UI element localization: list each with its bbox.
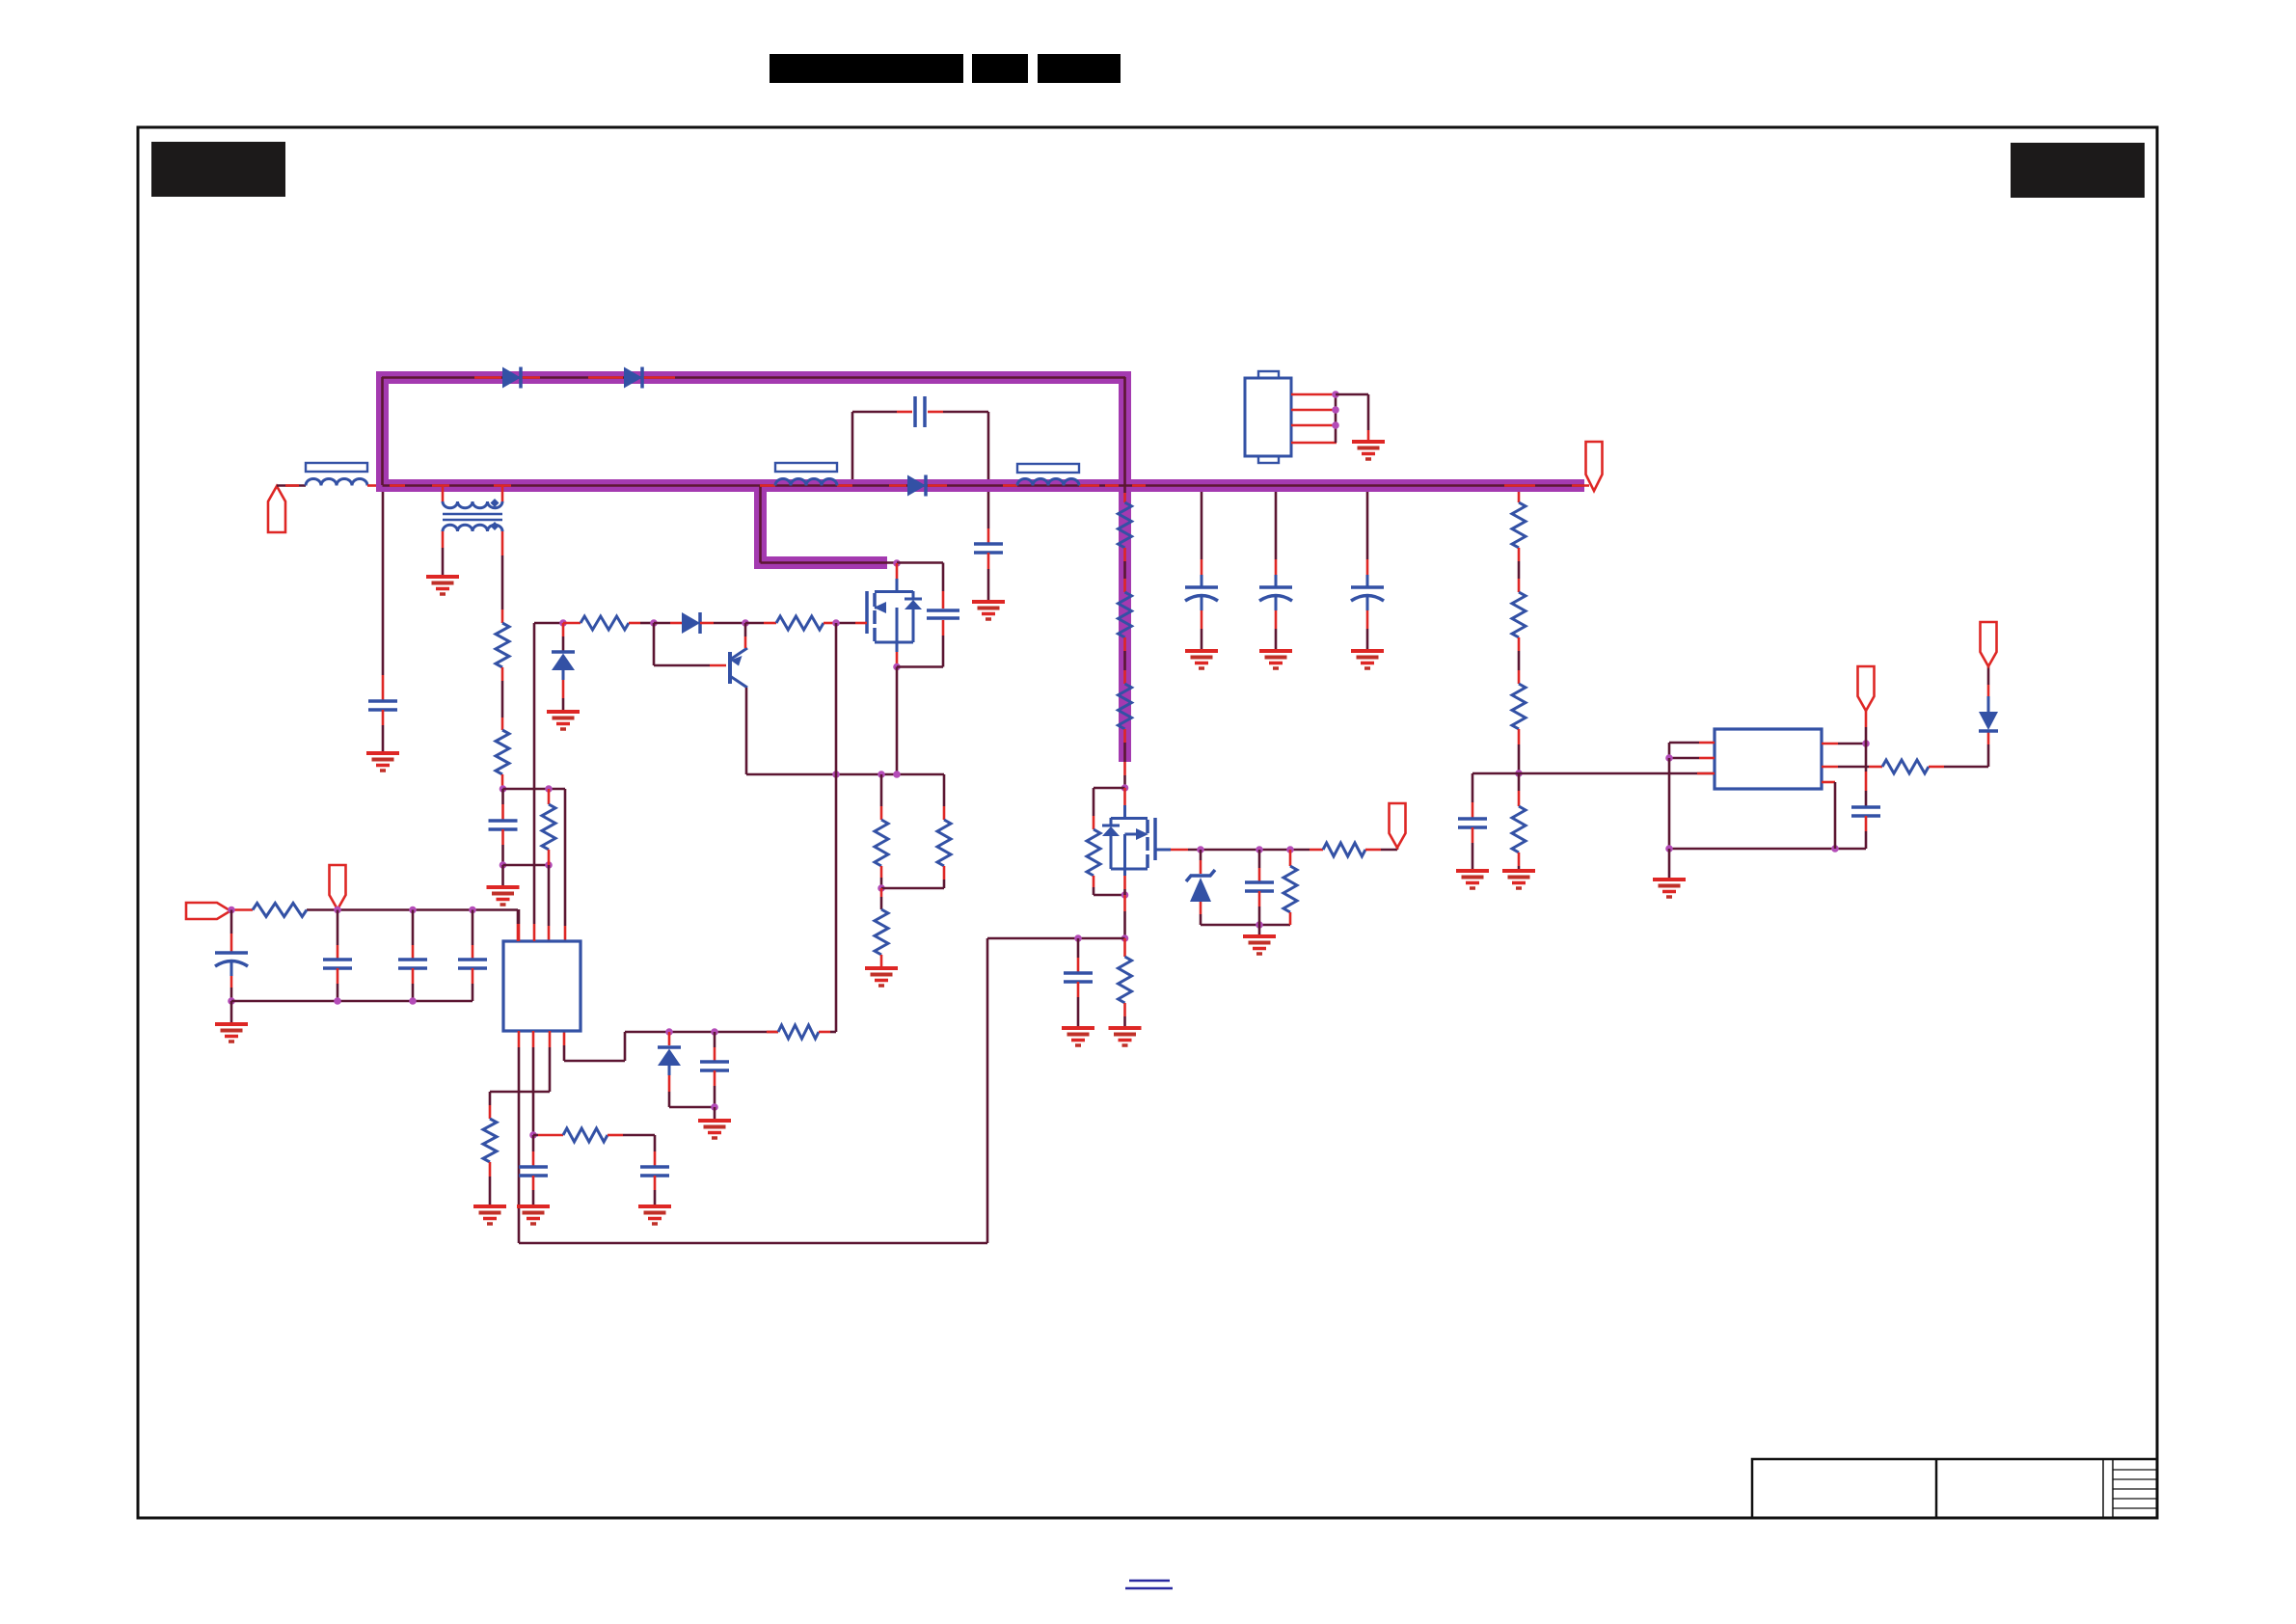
resistor RQ2 — [1087, 829, 1100, 876]
node divider junction — [500, 785, 565, 793]
C5 ground junction — [711, 1103, 718, 1121]
wire C11 bottom — [1865, 816, 1868, 849]
IC pin6 bottom — [518, 1031, 521, 1243]
wire T1 secondary left to ground — [442, 531, 445, 577]
Vcc junction 2 — [409, 907, 417, 914]
wire gate-drive riser — [759, 485, 762, 563]
wire RB bottom — [881, 866, 944, 888]
wire node to IC pin4 — [564, 789, 567, 941]
zener Z3 — [1186, 870, 1215, 902]
wire C6 top — [532, 1135, 535, 1166]
wire R1 to R2 — [501, 667, 504, 730]
wire Z1 top — [562, 623, 565, 652]
mosfet Q2 — [1102, 818, 1155, 876]
wire R3 to node — [629, 622, 654, 625]
wire Q3 collector down — [745, 688, 748, 774]
capacitor C4 — [927, 610, 959, 618]
resistor RD2 — [1512, 592, 1526, 637]
wire R6 lead — [533, 1134, 563, 1137]
resistor R8 — [253, 904, 307, 917]
wire RA bottom — [880, 866, 883, 888]
gate-drive junction — [893, 559, 901, 567]
source rail junction C — [893, 771, 901, 778]
wire R2t bottom — [548, 850, 551, 865]
IC pin2 top — [533, 623, 536, 941]
highlight bus left riser — [376, 371, 389, 492]
pin7 junction — [529, 1131, 537, 1139]
wire RA top — [880, 774, 883, 820]
wire Z3 bottom — [1201, 902, 1290, 925]
controller IC U1 — [503, 941, 581, 1031]
J2 pin 1 — [1291, 393, 1336, 396]
resistor RD4 — [1512, 806, 1526, 853]
wire output stub — [1572, 484, 1589, 487]
diode D2 — [624, 367, 642, 389]
ground G16 — [473, 1206, 506, 1224]
wire rail to R4 — [745, 622, 776, 625]
resistor RC — [875, 909, 888, 955]
gate rail junction 1 — [1197, 846, 1204, 853]
Q1 gate junction — [832, 619, 840, 627]
wire C15 top — [230, 910, 233, 954]
wire RD1-RD2 — [1518, 548, 1521, 592]
resistor RGS — [1323, 843, 1365, 856]
capacitor C15 — [215, 953, 248, 976]
feedback resistor RF1 — [1119, 502, 1132, 548]
wire C14 bottom — [412, 968, 415, 1001]
regulator U2 — [1715, 729, 1822, 789]
Vcc junction 3 — [469, 907, 476, 914]
capacitor C2 snubber — [915, 396, 925, 427]
wire C12 drop — [472, 910, 474, 960]
gate rail junction 2 — [1256, 846, 1263, 853]
output tag T4 — [1586, 442, 1603, 491]
wire gate rail left — [534, 622, 563, 625]
ground GRD — [1502, 871, 1535, 888]
capacitor C13 — [323, 960, 352, 968]
wire C5 bottom — [714, 1070, 716, 1107]
wire gnd column stub — [1668, 849, 1671, 880]
wire x867 column — [835, 623, 838, 1032]
wire C11 top — [1865, 744, 1868, 806]
capacitor C2t — [489, 821, 518, 829]
wire T2 stub — [337, 907, 339, 910]
wire Z3 top — [1200, 850, 1202, 874]
wire Q1 drain stub — [896, 563, 899, 579]
J2 pin bus — [1332, 391, 1339, 443]
highlight bus top band — [376, 371, 1131, 384]
wire left riser — [381, 377, 384, 485]
wire C10 top — [1077, 938, 1080, 972]
inductor L2 — [775, 463, 837, 486]
wire Q2 source — [1123, 876, 1126, 938]
wire Z2 bottom — [669, 1075, 715, 1107]
resistor R2t — [542, 804, 555, 850]
title redaction box top-right — [2011, 143, 2145, 198]
wire main bus — [383, 484, 1585, 487]
wire Vcc rail — [230, 910, 518, 942]
resistor R5 — [778, 1025, 819, 1039]
ground GC8 — [1456, 871, 1489, 888]
IC pin1 top — [518, 909, 521, 941]
diode D5 — [1979, 712, 1998, 731]
capacitor C10 — [1064, 973, 1093, 982]
wire RF2-RF3 — [1123, 637, 1126, 684]
resistor RD3 — [1512, 684, 1526, 729]
RA bottom junction — [878, 884, 885, 892]
resistor RS — [1119, 957, 1132, 1003]
wire gnd column — [1668, 758, 1671, 849]
ground G15 — [487, 887, 520, 905]
node2 junction — [500, 861, 553, 869]
resistor RO — [1882, 760, 1929, 773]
wire snubber right — [928, 412, 988, 479]
wire RO to D5 — [1929, 731, 1988, 767]
wire G9 stub — [1258, 925, 1261, 936]
wire C5 top — [714, 1032, 716, 1061]
wire Q3 emitter up — [744, 623, 747, 648]
resistor R1 — [496, 623, 509, 667]
wire source rail — [746, 773, 944, 776]
page header redaction bar 1 — [770, 54, 963, 83]
wire C8 ground — [1472, 827, 1474, 871]
wire gate node to C4 — [897, 563, 943, 609]
Vcc junction T2 — [334, 907, 341, 914]
wire R6 to C7 — [608, 1135, 655, 1166]
capacitor C1 — [368, 701, 397, 710]
wire C13 bottom — [337, 968, 339, 1001]
wire node2 ground — [501, 865, 504, 887]
wire rail to R5 — [767, 1031, 778, 1034]
wire gate-drive band — [761, 561, 898, 564]
Q2 source junction — [1121, 891, 1129, 899]
ground G4 — [547, 712, 580, 729]
diode D1 — [502, 367, 521, 389]
wire C9 top — [1258, 850, 1261, 881]
capacitor C5 — [700, 1062, 729, 1070]
wire RD4 top — [1518, 773, 1521, 806]
capacitor C14 — [398, 960, 427, 968]
wire RG bottom — [1289, 912, 1292, 925]
wire D5 to T5 — [1987, 666, 1990, 712]
wire R5 to column — [819, 1031, 836, 1034]
inductor L3 — [1017, 464, 1079, 486]
resistor R7 — [483, 1119, 497, 1162]
Q2 source node junction — [987, 934, 1128, 942]
Vcc junction 1 — [228, 907, 235, 914]
page header redaction bar 3 — [1038, 54, 1121, 83]
wire C14 drop — [412, 910, 415, 960]
wire Z1 ground — [562, 680, 565, 712]
wire Q1 gate — [836, 622, 867, 625]
page header redaction bar 2 — [972, 54, 1028, 83]
wire RS top — [1123, 938, 1126, 957]
wire C6 ground — [532, 1176, 535, 1206]
wire C15 bottom — [230, 976, 233, 1001]
wire RC top — [880, 888, 883, 909]
wire input node drop — [382, 492, 385, 701]
transformer T1 — [443, 486, 502, 531]
tag T6 — [1858, 666, 1875, 711]
resistor R2 — [496, 730, 509, 774]
diode D4 — [682, 612, 700, 634]
wire C7 ground — [654, 1176, 657, 1206]
wire Q2 R loop bottom — [1094, 876, 1125, 895]
wire C9 bottom — [1258, 891, 1261, 925]
wire Z2 top — [668, 1032, 671, 1045]
ground GB1 — [1185, 651, 1218, 668]
wire C4 bottom — [942, 620, 945, 667]
wire R7 ground — [489, 1162, 492, 1206]
feedback resistor RF2 — [1119, 592, 1132, 637]
Q2 drain junction — [1121, 784, 1129, 792]
wire RF1-RF2 — [1123, 548, 1126, 592]
ground G17 — [215, 1024, 248, 1042]
resistor R3 — [581, 616, 629, 630]
bulk capacitor CB3 — [1351, 587, 1384, 610]
wire J2 to ground — [1336, 394, 1368, 442]
tag T2 — [330, 865, 346, 909]
Q1 source junction — [893, 663, 943, 671]
wire bulk cap 2 gnd — [1275, 610, 1278, 651]
ground G3 — [972, 602, 1005, 619]
ground G7 — [517, 1206, 550, 1224]
resistor RG — [1283, 866, 1297, 912]
inductor L1 — [306, 463, 367, 486]
bulk capacitor CB2 — [1259, 587, 1292, 610]
ground G8 — [638, 1206, 671, 1224]
J2 pin 4 — [1291, 442, 1337, 445]
wire snubber to C3 — [987, 492, 990, 543]
wire RD2-RD3 — [1518, 637, 1521, 684]
schematic border frame — [138, 127, 2157, 1518]
feedback resistor RF3 — [1119, 684, 1132, 729]
footer link line 1 — [1129, 1580, 1170, 1582]
mosfet Q1 — [867, 579, 922, 652]
wire C13 drop — [337, 910, 339, 960]
highlight bus gate-drive riser — [754, 485, 767, 569]
C15 ground junction — [228, 997, 235, 1024]
wire riser to Q2 — [1123, 762, 1126, 788]
wire node to C-T — [501, 789, 504, 820]
wire rail to R3 — [563, 622, 581, 625]
tag T5 — [1981, 622, 1997, 666]
wire snubber left — [852, 412, 912, 479]
wire R4 to gate node — [824, 622, 836, 625]
wire pin3 from node2 — [548, 865, 551, 941]
resistor R6 — [563, 1128, 608, 1142]
Q3 emitter node — [742, 619, 749, 627]
title redaction box top-left — [151, 142, 285, 197]
wire Q2 drain — [1123, 788, 1126, 818]
ground G12 — [1352, 442, 1385, 459]
inductor L1 lead dash — [367, 484, 376, 487]
wire R7 link — [490, 1092, 550, 1119]
J2 pin 3 — [1291, 424, 1336, 427]
wire to tag T3 — [1365, 848, 1397, 850]
zener Z1 junction — [559, 619, 567, 627]
capacitor C7 — [640, 1167, 669, 1176]
capacitor C6 — [519, 1167, 548, 1176]
gate rail junction 3 — [1286, 846, 1294, 853]
bulk capacitor CB1 — [1185, 587, 1218, 610]
U2 pin R1 — [1822, 743, 1866, 745]
wire R2 to node — [501, 774, 504, 789]
wire C12 bottom — [472, 968, 474, 1001]
resistor RA — [875, 820, 888, 866]
BJT base node — [650, 619, 658, 627]
wire RF3 bottom — [1123, 729, 1126, 762]
U2 pin L1 — [1669, 743, 1715, 758]
wire T6 down — [1865, 711, 1868, 744]
U2 pin L2 — [1669, 757, 1715, 760]
resistor RB — [937, 820, 951, 866]
source rail junction A — [832, 771, 840, 778]
wire cap return bus — [231, 997, 473, 1005]
Z2 junction — [665, 1028, 673, 1036]
IC pin8 bottom — [549, 1031, 552, 1092]
input connector tag CON1 — [268, 486, 285, 532]
source rail junction B — [878, 771, 885, 778]
wire C3 ground — [987, 553, 990, 602]
wire C2t to node2 — [501, 829, 504, 865]
capacitor C9 — [1245, 882, 1274, 891]
U2 R1 junction — [1862, 740, 1870, 747]
U2 L junction — [1665, 754, 1673, 762]
zener Z1 — [552, 652, 575, 680]
wire top bus — [382, 376, 1125, 379]
ground GB2 — [1259, 651, 1292, 668]
ground G13 — [1653, 880, 1686, 897]
zener Z2 — [658, 1047, 681, 1075]
bottom bus U2 — [1665, 845, 1866, 853]
wire Q1 source down — [896, 667, 899, 775]
wire node to R-T — [548, 789, 551, 804]
U2 pin R3 — [1822, 782, 1835, 849]
divider junction — [1515, 770, 1523, 777]
wire red dashes top bus — [474, 376, 675, 379]
title block — [1752, 1459, 2157, 1518]
footer link line 2 — [1125, 1587, 1173, 1589]
wire bulk cap 1 drop — [1201, 492, 1203, 587]
ground G6 — [698, 1121, 731, 1138]
capacitor C12 — [458, 960, 487, 968]
wire bulk cap 1 gnd — [1201, 610, 1203, 651]
capacitor C3 — [974, 544, 1003, 553]
wire input to L1 — [277, 484, 306, 487]
wire IC pin5 stub — [563, 1031, 566, 1061]
wire D4 to Q3 — [700, 622, 745, 625]
ground G11 — [1109, 1028, 1142, 1045]
highlight bus right riser — [1119, 371, 1131, 762]
diode D3 — [907, 475, 926, 497]
U2 pin L3 stub — [1697, 772, 1715, 775]
C5 junction — [711, 1028, 718, 1036]
wire Q2 gate rail — [1155, 849, 1323, 852]
wire Q1 source — [896, 652, 899, 664]
wire T1 secondary right down — [501, 531, 504, 623]
wire 1070 rail — [564, 1032, 778, 1061]
wire C10 ground — [1077, 982, 1080, 1028]
capacitor C11 — [1851, 807, 1880, 816]
IC pin7 bottom — [532, 1031, 535, 1135]
J2 pin 2 — [1291, 409, 1336, 412]
ground GB3 — [1351, 651, 1384, 668]
wire bulk cap 2 drop — [1275, 492, 1278, 587]
input tag TIN — [186, 903, 230, 919]
ground G2 — [426, 577, 459, 594]
Z3 gnd junction — [1256, 921, 1263, 929]
wire C1 to ground — [382, 710, 385, 753]
wire RB drop — [943, 774, 946, 820]
U2 pin R2 — [1822, 766, 1882, 769]
wire red dashes main bus — [390, 484, 1535, 487]
ground G10 — [1062, 1028, 1094, 1045]
capacitor C8 — [1458, 819, 1487, 827]
wire divider rail — [1472, 772, 1715, 775]
wire RD3 bottom — [1518, 729, 1521, 773]
highlight bus gate-drive band — [754, 556, 887, 569]
resistor RD1 — [1512, 502, 1526, 548]
highlight bus main band — [376, 479, 1584, 492]
wire RC ground — [880, 955, 883, 968]
wire C8 drop — [1472, 773, 1474, 818]
wire bulk cap 3 gnd — [1366, 610, 1369, 651]
connector J2 body — [1245, 371, 1291, 463]
wire bottom return bus — [519, 938, 987, 1243]
wire node to D4 — [654, 622, 682, 625]
wire RD4 ground — [1518, 853, 1521, 871]
wire RD chain top — [1518, 492, 1521, 502]
wire right riser upper — [1123, 377, 1126, 502]
resistor R4 — [776, 616, 824, 630]
wire bulk cap 3 drop — [1366, 492, 1369, 587]
ground G1 — [366, 753, 399, 771]
transistor Q3 PNP — [730, 648, 747, 688]
ground G9 — [1243, 936, 1276, 954]
wire base link — [654, 623, 726, 665]
wire Q2 R loop top — [1094, 788, 1125, 829]
wire RS ground — [1123, 1003, 1126, 1028]
tag T3 — [1390, 803, 1406, 848]
ground G5 — [865, 968, 898, 986]
wire RG top — [1289, 850, 1292, 866]
